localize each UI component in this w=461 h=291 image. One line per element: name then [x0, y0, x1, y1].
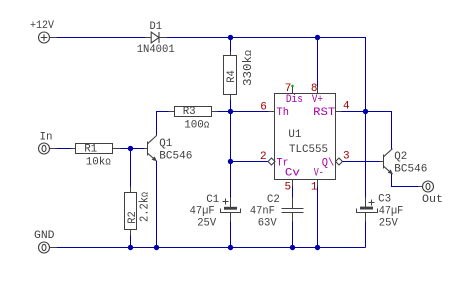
wire V+ pin8: [317, 38, 319, 87]
node Th row: [228, 109, 233, 114]
svg-text:6: 6: [260, 101, 267, 113]
terminal In: [39, 143, 50, 154]
wire Th: [231, 111, 269, 113]
node base junction: [128, 146, 133, 151]
node C2 bottom: [290, 245, 295, 250]
wire In to R1: [57, 148, 71, 150]
wire Tr: [231, 161, 269, 163]
svg-text:5: 5: [285, 182, 292, 194]
svg-text:C2: C2: [267, 194, 280, 206]
wire Tr node down to C1: [230, 162, 232, 198]
wire bottom rail: [57, 247, 366, 249]
svg-text:Q1: Q1: [159, 138, 172, 150]
svg-text:V+: V+: [312, 94, 323, 106]
terminal Out: [423, 181, 434, 192]
svg-text:In: In: [40, 132, 53, 144]
svg-text:47µF: 47µF: [190, 206, 215, 218]
svg-text:V-: V-: [314, 168, 324, 180]
node C1 bottom: [228, 245, 233, 250]
svg-text:25V: 25V: [197, 217, 216, 229]
svg-text:R1: R1: [84, 144, 97, 156]
wire junction to Q1 base: [131, 148, 145, 150]
node RST column: [363, 109, 368, 114]
svg-text:GND: GND: [34, 230, 55, 242]
capacitor C1: [230, 198, 232, 208]
capacitor C3: [365, 198, 367, 208]
svg-text:2.2kΩ: 2.2kΩ: [138, 192, 152, 222]
wire Q2 emitter to Out: [392, 174, 419, 187]
resistor R4: [230, 52, 232, 56]
wire Q\ to Q2 base: [343, 161, 380, 163]
wire R3 to node: [218, 111, 231, 113]
svg-text:C1: C1: [206, 194, 219, 206]
terminal GND: [39, 242, 50, 253]
capacitor C2: [292, 198, 294, 209]
svg-text:BC546: BC546: [394, 163, 427, 175]
node R2 bottom: [128, 245, 133, 250]
transistor Q1: [144, 148, 148, 150]
svg-text:+12V: +12V: [30, 20, 54, 32]
svg-text:Q2: Q2: [394, 151, 407, 163]
wire junction to R2: [130, 149, 132, 187]
svg-text:10kΩ: 10kΩ: [86, 157, 112, 169]
wire R1 to junction: [121, 148, 131, 150]
svg-text:1N4001: 1N4001: [137, 44, 175, 56]
resistor R2: [130, 187, 132, 193]
svg-text:BC546: BC546: [159, 150, 192, 162]
svg-text:D1: D1: [150, 21, 163, 33]
svg-text:2: 2: [260, 151, 267, 163]
svg-text:4: 4: [343, 101, 350, 113]
svg-text:U1: U1: [288, 129, 301, 141]
node top R4: [228, 35, 233, 40]
svg-text:25V: 25V: [379, 217, 398, 229]
svg-text:R3: R3: [183, 106, 196, 118]
diode D1: [145, 37, 151, 39]
svg-text:C3: C3: [378, 194, 391, 206]
svg-text:TLC555: TLC555: [289, 144, 328, 156]
svg-text:47µF: 47µF: [379, 205, 404, 217]
svg-text:63V: 63V: [258, 217, 277, 229]
transistor Q2: [380, 161, 384, 163]
resistor R1: [71, 148, 76, 150]
svg-text:Cv: Cv: [285, 168, 300, 180]
svg-text:330kΩ: 330kΩ: [241, 50, 255, 86]
wire Q1 collector up: [157, 112, 169, 136]
wire RST to right column: [342, 112, 392, 150]
svg-text:RST: RST: [313, 107, 335, 119]
unconnected pin 7 tip: [291, 85, 293, 87]
wire R4 bottom to C1: [230, 100, 232, 198]
svg-text:Dis: Dis: [286, 94, 303, 106]
svg-text:100Ω: 100Ω: [184, 120, 210, 132]
node top V+: [315, 35, 320, 40]
svg-text:Out: Out: [422, 194, 443, 206]
wire pin5 down: [292, 187, 294, 198]
resistor R3: [169, 111, 175, 113]
svg-text:7: 7: [285, 83, 292, 95]
wire Q1 emitter down: [156, 161, 158, 248]
wire R4 top: [230, 38, 232, 52]
wire top rail left: [57, 37, 145, 39]
svg-text:Th: Th: [277, 107, 290, 119]
svg-text:1: 1: [311, 182, 318, 194]
node V- bottom: [315, 245, 320, 250]
wire pin1 V- down: [317, 187, 319, 248]
node Q1 emitter bottom: [154, 245, 159, 250]
wire top rail right: [167, 38, 366, 198]
svg-text:3: 3: [343, 151, 350, 163]
op IC U1 TLC555: [275, 94, 336, 180]
svg-text:R4: R4: [226, 70, 238, 83]
svg-text:8: 8: [311, 83, 318, 95]
svg-text:47nF: 47nF: [250, 206, 275, 218]
terminal +12V: [39, 32, 50, 43]
node Tr row: [228, 159, 233, 164]
